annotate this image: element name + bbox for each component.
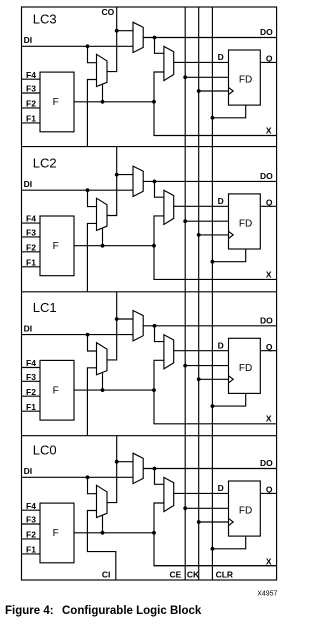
wire DO to D mux (LC0)	[155, 469, 164, 485]
svg-text:F4: F4	[26, 214, 36, 224]
wire CE to FD (LC0)	[185, 507, 228, 509]
wire F1 input (LC1)	[22, 410, 41, 412]
wire carry-in (LC2)	[87, 223, 96, 291]
svg-text:DI: DI	[24, 179, 32, 189]
wire D input (LC3)	[174, 61, 229, 63]
svg-text:F: F	[53, 386, 59, 397]
wire F output (LC2)	[74, 245, 154, 247]
svg-text:X: X	[266, 269, 272, 279]
wire CLR to FD (LC2)	[212, 249, 245, 262]
cell separator below LC1	[22, 435, 277, 437]
svg-text:F3: F3	[26, 372, 36, 382]
function generator F (LC2)	[40, 216, 74, 276]
clock chevron (LC2)	[229, 231, 234, 238]
wire CK to FD (LC3)	[199, 90, 229, 92]
junction CE tap (LC1)	[183, 364, 187, 368]
wire X output (LC1)	[154, 390, 277, 424]
junction carry tap (LC0)	[115, 460, 119, 464]
wire carry out (LC0)	[107, 436, 117, 503]
wire F1 input (LC3)	[22, 122, 41, 124]
svg-text:LC2: LC2	[33, 155, 57, 170]
function generator F (LC3)	[40, 72, 74, 132]
svg-text:FD: FD	[239, 219, 252, 230]
junction carry select tap (LC2)	[101, 244, 105, 248]
svg-text:FD: FD	[239, 506, 252, 517]
svg-text:DO: DO	[260, 27, 273, 37]
svg-text:D: D	[218, 52, 224, 62]
svg-text:Figure 4:: Figure 4:	[5, 605, 54, 617]
wire F3 input (LC0)	[22, 523, 41, 525]
junction DO tap (LC0)	[153, 467, 157, 471]
svg-text:F3: F3	[26, 515, 36, 525]
junction CK tap (LC0)	[197, 520, 201, 524]
function generator F (LC1)	[40, 360, 74, 420]
wire F to D mux (LC1)	[154, 360, 164, 390]
mux carry (LC0)	[97, 485, 108, 517]
svg-text:CO: CO	[102, 7, 115, 17]
wire F3 input (LC2)	[22, 236, 41, 238]
wire X output (LC2)	[154, 246, 277, 280]
junction carry select tap (LC3)	[101, 100, 105, 104]
wire F2 input (LC1)	[22, 395, 41, 397]
svg-text:F4: F4	[26, 501, 36, 511]
net CLR vertical line	[211, 7, 213, 580]
wire DI input (LC0)	[22, 476, 134, 478]
wire F1 input (LC0)	[22, 553, 41, 555]
svg-text:DO: DO	[260, 171, 273, 181]
junction carry select tap (LC1)	[101, 388, 105, 392]
mux DO select (LC2)	[133, 166, 143, 196]
svg-text:X: X	[266, 414, 272, 424]
wire F2 input (LC2)	[22, 251, 41, 253]
wire carry to DO mux (LC1)	[117, 318, 133, 320]
mux D input (LC2)	[164, 190, 174, 224]
wire CK to FD (LC0)	[199, 521, 229, 523]
wire Q output (LC3)	[260, 61, 276, 63]
svg-text:CK: CK	[187, 569, 200, 579]
svg-text:X: X	[266, 556, 272, 566]
wire DO to D mux (LC3)	[155, 38, 164, 54]
wire DO output (LC3)	[143, 37, 276, 39]
junction carry tap (LC1)	[115, 317, 119, 321]
junction F to X branch (LC2)	[152, 244, 156, 248]
wire CLR to FD (LC3)	[212, 105, 245, 118]
junction DI branch (LC0)	[86, 475, 90, 479]
wire F output (LC3)	[74, 101, 154, 103]
junction CE tap (LC0)	[183, 506, 187, 510]
wire F output (LC0)	[74, 532, 154, 534]
svg-text:D: D	[218, 483, 224, 493]
wire CK to FD (LC2)	[199, 234, 229, 236]
svg-text:Configurable Logic Block: Configurable Logic Block	[62, 605, 202, 617]
svg-text:CI: CI	[102, 569, 111, 579]
mux carry (LC1)	[97, 343, 108, 375]
net CK vertical line	[198, 7, 200, 580]
wire Q output (LC1)	[260, 350, 276, 352]
svg-text:F2: F2	[26, 242, 36, 252]
svg-text:F3: F3	[26, 228, 36, 238]
wire DI input (LC3)	[22, 45, 134, 47]
wire X output (LC0)	[154, 533, 277, 566]
net CE vertical line	[184, 7, 186, 580]
junction DI branch (LC2)	[86, 188, 90, 192]
svg-text:DO: DO	[260, 458, 273, 468]
junction F to X branch (LC1)	[152, 388, 156, 392]
svg-text:F3: F3	[26, 84, 36, 94]
wire F to D mux (LC2)	[154, 216, 164, 246]
wire CLR to FD (LC1)	[212, 393, 245, 406]
function generator F (LC0)	[40, 503, 74, 563]
wire DO to D mux (LC1)	[155, 326, 164, 342]
wire carry out (LC3)	[107, 7, 117, 72]
mux DO select (LC1)	[133, 311, 143, 341]
svg-text:DI: DI	[24, 35, 32, 45]
wire Q output (LC0)	[260, 492, 276, 494]
wire F4 input (LC0)	[22, 509, 41, 511]
mux D input (LC0)	[164, 477, 174, 511]
flip-flop FD (LC3)	[229, 50, 261, 105]
bottom strip line	[154, 565, 277, 567]
junction CLR tap (LC1)	[211, 404, 215, 408]
junction CLR tap (LC2)	[211, 260, 215, 264]
svg-text:DO: DO	[260, 315, 273, 325]
svg-text:DI: DI	[24, 466, 32, 476]
wire DI to carry mux (LC3)	[88, 46, 97, 62]
svg-text:FD: FD	[239, 363, 252, 374]
junction CK tap (LC1)	[197, 377, 201, 381]
flip-flop FD (LC2)	[229, 194, 261, 249]
svg-text:X: X	[266, 125, 272, 135]
wire CE to FD (LC1)	[185, 365, 228, 367]
wire D input (LC0)	[174, 492, 229, 494]
wire DI input (LC2)	[22, 189, 134, 191]
flip-flop FD (LC0)	[229, 481, 261, 536]
junction CE tap (LC3)	[183, 75, 187, 79]
svg-text:F1: F1	[26, 545, 36, 555]
svg-text:F1: F1	[26, 114, 36, 124]
junction F to X branch (LC3)	[152, 100, 156, 104]
junction CLR tap (LC0)	[211, 547, 215, 551]
svg-text:LC0: LC0	[33, 443, 57, 458]
svg-text:FD: FD	[239, 75, 252, 86]
svg-text:F4: F4	[26, 358, 36, 368]
svg-text:F: F	[53, 241, 59, 252]
wire F1 input (LC2)	[22, 266, 41, 268]
junction CK tap (LC3)	[197, 89, 201, 93]
junction DI branch (LC1)	[86, 333, 90, 337]
wire CE to FD (LC2)	[185, 220, 228, 222]
wire D input (LC1)	[174, 350, 229, 352]
svg-text:CLR: CLR	[216, 569, 233, 579]
svg-text:D: D	[218, 341, 224, 351]
svg-text:F2: F2	[26, 387, 36, 397]
junction carry select tap (LC0)	[101, 531, 105, 535]
wire DO output (LC1)	[143, 325, 276, 327]
junction DO tap (LC3)	[153, 36, 157, 40]
wire F to D mux (LC0)	[154, 503, 164, 533]
wire DO output (LC0)	[143, 468, 276, 470]
wire carry-in CI (LC0)	[87, 511, 115, 581]
svg-text:DI: DI	[24, 324, 32, 334]
junction carry tap (LC3)	[115, 29, 119, 33]
wire F3 input (LC3)	[22, 92, 41, 94]
cell separator below LC3	[22, 146, 277, 148]
wire D input (LC2)	[174, 205, 229, 207]
wire carry-in (LC1)	[87, 368, 96, 436]
wire carry to DO mux (LC2)	[117, 174, 133, 176]
wire DI to carry mux (LC1)	[88, 335, 97, 351]
figure border	[22, 7, 277, 580]
wire carry-in (LC3)	[87, 80, 96, 147]
svg-text:Q: Q	[266, 54, 273, 64]
junction carry tap (LC2)	[115, 173, 119, 177]
wire carry out (LC1)	[107, 292, 117, 360]
wire carry out (LC2)	[107, 147, 117, 216]
mux carry (LC2)	[97, 198, 108, 230]
wire F3 input (LC1)	[22, 380, 41, 382]
mux D input (LC3)	[164, 46, 174, 80]
wire F4 input (LC3)	[22, 78, 41, 80]
wire DI input (LC1)	[22, 334, 134, 336]
wire carry mux select (LC2)	[102, 228, 104, 246]
wire CLR to FD (LC0)	[212, 536, 245, 549]
wire DI to carry mux (LC0)	[88, 477, 97, 493]
wire carry mux select (LC0)	[102, 515, 104, 533]
mux carry (LC3)	[97, 54, 108, 86]
svg-text:F1: F1	[26, 402, 36, 412]
svg-text:F: F	[53, 528, 59, 539]
wire CE to FD (LC3)	[185, 76, 228, 78]
wire carry mux select (LC1)	[102, 372, 104, 390]
svg-text:D: D	[218, 196, 224, 206]
clock chevron (LC0)	[229, 518, 234, 525]
svg-text:LC1: LC1	[33, 300, 57, 315]
wire F2 input (LC0)	[22, 538, 41, 540]
wire carry to DO mux (LC3)	[117, 30, 133, 32]
junction CE tap (LC2)	[183, 219, 187, 223]
wire F output (LC1)	[74, 389, 154, 391]
svg-text:F2: F2	[26, 99, 36, 109]
flip-flop FD (LC1)	[229, 338, 261, 393]
svg-text:Q: Q	[266, 197, 273, 207]
mux DO select (LC3)	[133, 22, 143, 52]
svg-text:Q: Q	[266, 485, 273, 495]
wire Q output (LC2)	[260, 205, 276, 207]
junction DO tap (LC2)	[153, 180, 157, 184]
clock chevron (LC1)	[229, 376, 234, 383]
svg-text:X4957: X4957	[257, 591, 277, 598]
wire DI to carry mux (LC2)	[88, 190, 97, 206]
junction DO tap (LC1)	[153, 324, 157, 328]
junction F to X branch (LC0)	[152, 531, 156, 535]
junction DI branch (LC3)	[86, 44, 90, 48]
mux D input (LC1)	[164, 335, 174, 369]
wire F to D mux (LC3)	[154, 72, 164, 102]
svg-text:F: F	[53, 97, 59, 108]
svg-text:CE: CE	[170, 569, 182, 579]
junction CK tap (LC2)	[197, 233, 201, 237]
wire carry mux select (LC3)	[102, 84, 104, 102]
svg-text:F1: F1	[26, 257, 36, 267]
caption Figure 4	[5, 605, 202, 617]
junction CLR tap (LC3)	[211, 116, 215, 120]
wire F4 input (LC2)	[22, 222, 41, 224]
svg-text:Q: Q	[266, 342, 273, 352]
wire carry to DO mux (LC0)	[117, 461, 133, 463]
wire F4 input (LC1)	[22, 367, 41, 369]
mux DO select (LC0)	[133, 453, 143, 483]
cell separator below LC2	[22, 291, 277, 293]
wire CK to FD (LC1)	[199, 378, 229, 380]
svg-text:LC3: LC3	[33, 12, 57, 27]
wire DO output (LC2)	[143, 180, 276, 182]
wire DO to D mux (LC2)	[155, 181, 164, 197]
wire X output (LC3)	[154, 102, 277, 136]
wire F2 input (LC3)	[22, 107, 41, 109]
svg-text:F2: F2	[26, 530, 36, 540]
svg-text:F4: F4	[26, 70, 36, 80]
clock chevron (LC3)	[229, 87, 234, 94]
